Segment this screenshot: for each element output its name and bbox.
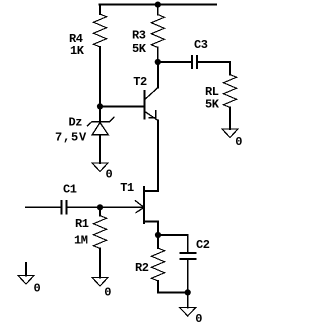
svg-text:Dz: Dz <box>69 116 83 130</box>
svg-text:T1: T1 <box>120 181 134 195</box>
wire top supply rail <box>99 4 216 6</box>
capacitor C1 <box>62 201 67 214</box>
resistor R4 <box>94 5 107 48</box>
wire RL bottom to ground <box>229 108 231 130</box>
resistor R2 <box>152 235 165 292</box>
wire node B to C3 left plate <box>158 61 192 63</box>
ground symbol at output bottom <box>180 308 196 317</box>
wire C2 bottom to node E <box>187 260 189 293</box>
resistor RL <box>224 75 237 108</box>
svg-text:0: 0 <box>195 312 202 325</box>
capacitor C3 <box>192 56 197 68</box>
svg-text:R2: R2 <box>135 261 149 275</box>
wire T2 collector to node B <box>157 62 159 88</box>
capacitor C2 <box>180 253 195 259</box>
zener diode Dz <box>87 106 114 134</box>
junction dot node A (R4 / Dz / T2 base) <box>97 103 103 109</box>
resistor R3 <box>151 5 164 63</box>
transistor T1 (JFET) <box>136 187 159 223</box>
svg-text:1K: 1K <box>70 44 85 58</box>
wire R2 bottom to node E <box>158 291 188 293</box>
wire C1 to node C <box>67 206 100 208</box>
wire R4 bottom to node A <box>99 47 101 106</box>
junction dot node C (C1 / R1 / T1 gate) <box>97 204 103 210</box>
wire node C to T1 gate <box>100 206 143 208</box>
wire input source <box>26 206 61 208</box>
ground symbol below RL <box>222 129 238 138</box>
wire T1 source to node D <box>157 222 159 236</box>
wire C3 right plate to RL top <box>198 62 230 75</box>
svg-text:0: 0 <box>235 135 242 149</box>
junction dot top rail / R3 <box>155 2 161 8</box>
svg-text:7,5V: 7,5V <box>55 131 87 145</box>
svg-text:T2: T2 <box>133 75 147 89</box>
resistor R1 <box>94 207 107 248</box>
svg-text:C2: C2 <box>196 238 210 252</box>
junction dot node B (R3 / C3 / T2 collector) <box>155 59 161 65</box>
wire node D to C2 top <box>158 235 188 252</box>
transistor T2 <box>144 88 158 121</box>
svg-text:0: 0 <box>106 168 113 182</box>
svg-text:5K: 5K <box>205 98 220 112</box>
svg-text:C3: C3 <box>194 38 208 52</box>
ground symbol below R1 <box>92 278 108 287</box>
svg-text:C1: C1 <box>63 183 77 197</box>
svg-text:R3: R3 <box>132 29 146 43</box>
svg-text:5K: 5K <box>132 42 147 56</box>
ground symbol below Dz <box>92 163 108 172</box>
wire node A to T2 base <box>100 105 144 107</box>
wire T2 emitter to T1 drain <box>157 121 159 192</box>
ground symbol at input <box>18 263 34 284</box>
svg-text:0: 0 <box>34 282 41 296</box>
wire Dz anode to ground <box>99 135 101 163</box>
junction dot node E (R2 / C2 / ground) <box>185 289 191 295</box>
wire node E to ground <box>187 292 189 307</box>
junction dot node D (T1 source / R2 / C2) <box>155 232 161 238</box>
wire R1 bottom to ground <box>99 249 101 278</box>
svg-text:R1: R1 <box>75 217 89 231</box>
svg-text:0: 0 <box>104 286 111 300</box>
svg-text:1M: 1M <box>74 234 88 248</box>
